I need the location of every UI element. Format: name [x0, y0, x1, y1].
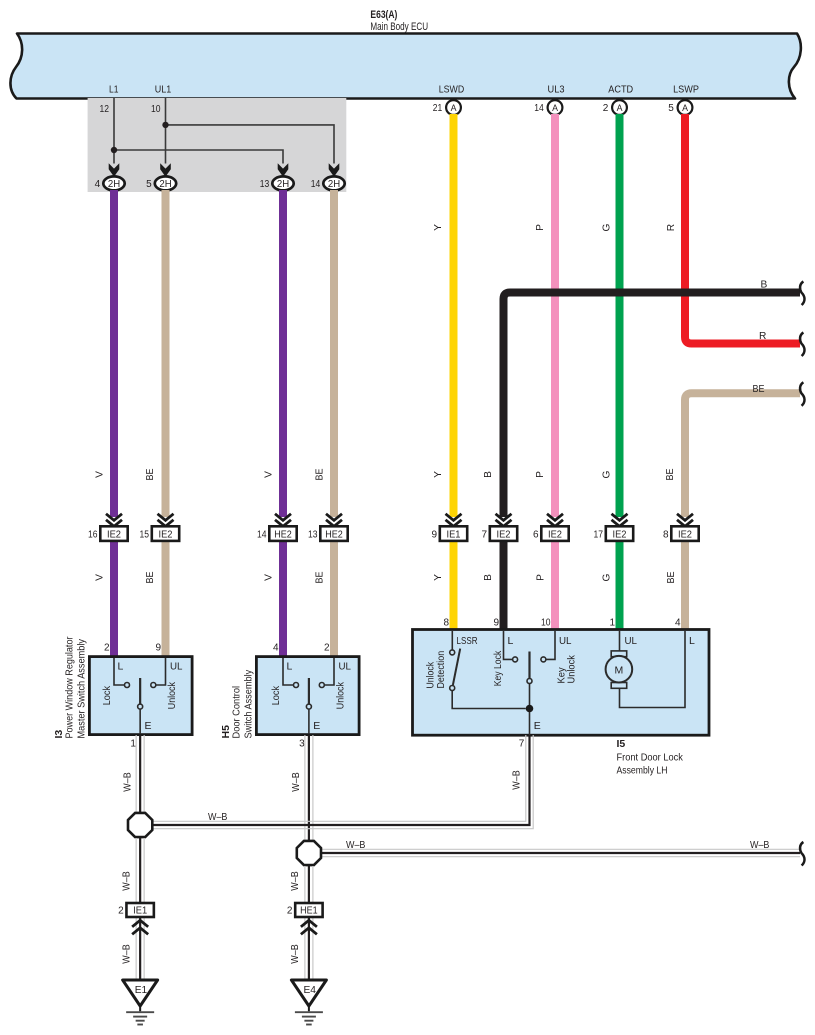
key switch pole: [528, 652, 530, 679]
connector IE2 pin 17: [606, 526, 633, 541]
svg-text:Key Lock: Key Lock: [493, 650, 504, 686]
svg-text:Unlock: Unlock: [335, 681, 346, 709]
svg-text:BE: BE: [753, 384, 765, 395]
connector IE1 pin 9: [440, 526, 467, 541]
svg-text:1: 1: [130, 738, 136, 749]
svg-text:12: 12: [100, 104, 110, 115]
ground E1: [123, 980, 158, 1025]
connector arrow into HE2 pin 13: [326, 514, 342, 527]
svg-text:Lock: Lock: [102, 685, 113, 705]
wire BE tan UL1 upper: [162, 190, 170, 517]
svg-text:W–B: W–B: [208, 812, 228, 823]
svg-text:4: 4: [675, 618, 681, 629]
svg-text:4: 4: [95, 179, 101, 190]
svg-text:IE1: IE1: [447, 530, 461, 541]
svg-text:L: L: [287, 661, 293, 673]
svg-text:2: 2: [118, 906, 124, 917]
svg-text:BE: BE: [315, 468, 326, 480]
junction UL1: [162, 122, 168, 128]
svg-text:IE2: IE2: [107, 530, 121, 541]
svg-text:W–B: W–B: [750, 840, 770, 851]
connector arrow into IE2 pin 15: [158, 514, 174, 527]
svg-text:17: 17: [594, 530, 604, 541]
W-B wire J2 to right break: [320, 849, 800, 856]
W-B wire IE1 to ground E1: [136, 917, 144, 980]
connector 2H pin 5: [155, 176, 176, 190]
pole contact (H5): [306, 704, 311, 709]
svg-text:14: 14: [534, 103, 544, 114]
svg-text:W–B: W–B: [122, 772, 133, 792]
wire Y yellow lower: [450, 541, 458, 630]
svg-text:E4: E4: [303, 985, 316, 996]
svg-text:IE2: IE2: [497, 530, 511, 541]
svg-text:V: V: [95, 471, 106, 478]
svg-text:IE2: IE2: [159, 530, 173, 541]
W-B wire H5 E to junction J2: [305, 735, 313, 841]
connector arrow into 2H pin 13: [278, 163, 289, 177]
key lock contact wiring: [504, 631, 513, 659]
wire BE tan 2 upper: [330, 190, 338, 517]
connector IE2 pin 15: [152, 526, 179, 541]
pole contact (I3): [138, 704, 143, 709]
box I3 Power Window Regulator Master Switch Assembly: [89, 657, 192, 735]
svg-text:2: 2: [104, 643, 110, 654]
svg-text:W–B: W–B: [290, 871, 301, 891]
svg-text:A: A: [552, 103, 558, 113]
svg-text:9: 9: [493, 618, 499, 629]
contact key unlock: [541, 657, 546, 662]
pole to E wire: [529, 684, 531, 736]
svg-text:H5: H5: [220, 725, 232, 739]
wire P pink upper: [551, 114, 559, 517]
svg-text:BE: BE: [145, 571, 156, 583]
wire BE tan UL1 lower: [162, 541, 170, 657]
svg-text:IE2: IE2: [678, 530, 692, 541]
svg-text:G: G: [602, 573, 613, 581]
connector 2H pin 14: [323, 176, 344, 190]
svg-text:A: A: [682, 103, 688, 113]
connector A pin 21: [446, 100, 461, 115]
svg-text:LSWP: LSWP: [673, 85, 699, 96]
svg-text:Detection: Detection: [436, 651, 447, 689]
connector arrow into IE2 pin 7: [496, 514, 512, 527]
svg-text:HE1: HE1: [300, 906, 318, 917]
svg-text:UL: UL: [625, 635, 638, 647]
contact L (H5): [294, 683, 299, 688]
svg-text:L: L: [118, 661, 124, 673]
svg-text:A: A: [451, 103, 457, 113]
svg-text:5: 5: [146, 179, 152, 190]
svg-text:Unlock: Unlock: [167, 681, 178, 709]
svg-text:2H: 2H: [108, 179, 120, 190]
svg-text:E: E: [144, 720, 151, 732]
svg-text:W–B: W–B: [346, 840, 366, 851]
svg-text:2H: 2H: [277, 179, 289, 190]
connector IE2 pin 6: [541, 526, 568, 541]
wire B black lower: [500, 541, 508, 630]
connector arrow into IE2 pin 8: [677, 514, 693, 527]
svg-text:B: B: [483, 574, 494, 581]
svg-text:IE1: IE1: [133, 906, 147, 917]
wire V purple L1 lower: [110, 541, 118, 657]
svg-text:V: V: [95, 574, 106, 581]
svg-text:Master Switch Assembly: Master Switch Assembly: [77, 638, 88, 738]
ground E4: [291, 980, 326, 1025]
connector IE2 pin 16: [100, 526, 127, 541]
svg-text:V: V: [264, 574, 275, 581]
svg-text:2H: 2H: [328, 179, 340, 190]
break mark wire R: [800, 333, 804, 357]
svg-text:B: B: [761, 280, 768, 291]
svg-text:E1: E1: [135, 985, 148, 996]
svg-text:1: 1: [609, 618, 615, 629]
svg-text:LSSR: LSSR: [457, 635, 478, 647]
svg-text:HE2: HE2: [325, 530, 343, 541]
connector A pin 14: [548, 100, 563, 115]
svg-text:6: 6: [533, 530, 539, 541]
wire R red: [685, 114, 800, 344]
svg-text:16: 16: [88, 530, 98, 541]
svg-text:8: 8: [443, 618, 449, 629]
connector 2H pin 4: [103, 176, 124, 190]
svg-text:B: B: [483, 471, 494, 478]
key unlock contact wiring: [546, 631, 555, 659]
svg-text:Unlock: Unlock: [566, 654, 577, 683]
unlock detection switch: [452, 631, 526, 709]
contact UL (I3): [151, 683, 156, 688]
box I5 Front Door Lock Assembly LH: [413, 630, 710, 736]
svg-text:W–B: W–B: [512, 770, 523, 790]
junction L1: [111, 147, 117, 153]
wire G green lower: [616, 541, 624, 630]
svg-text:BE: BE: [315, 571, 326, 583]
svg-text:Door Control: Door Control: [232, 686, 243, 739]
connector arrow into HE2 pin 14: [275, 514, 291, 527]
motor return wire: [620, 631, 686, 708]
connector arrow into IE2 pin 17: [612, 514, 628, 527]
svg-text:2H: 2H: [159, 179, 171, 190]
connector A pin 5: [678, 100, 693, 115]
svg-text:P: P: [535, 471, 546, 478]
svg-text:Lock: Lock: [271, 685, 282, 705]
wire Y yellow upper: [450, 114, 458, 517]
svg-text:IE2: IE2: [548, 530, 562, 541]
connector arrow into 2H pin 5: [160, 163, 171, 177]
svg-text:UL: UL: [559, 635, 572, 647]
connector IE1 pin 2: [126, 903, 153, 917]
connector HE2 pin 13: [320, 526, 347, 541]
svg-text:2: 2: [603, 103, 609, 114]
wire B black upper: [504, 293, 801, 518]
connector arrow into IE2 pin 6: [547, 514, 563, 527]
svg-text:LSWD: LSWD: [439, 85, 464, 96]
gray junction area: [88, 98, 347, 192]
svg-text:13: 13: [308, 530, 318, 541]
contact key lock: [513, 657, 518, 662]
svg-text:E63(A): E63(A): [370, 9, 397, 21]
wire V purple L1 upper: [110, 190, 118, 517]
wire V purple 2 lower: [279, 541, 287, 657]
svg-text:Unlock: Unlock: [426, 661, 437, 688]
svg-text:E: E: [534, 720, 541, 732]
svg-text:UL: UL: [170, 661, 183, 673]
H5 switch wiring: [283, 658, 334, 734]
svg-text:BE: BE: [666, 571, 677, 583]
connector arrow into 2H pin 4: [109, 163, 120, 177]
svg-text:9: 9: [431, 530, 437, 541]
wire V purple 2 upper: [279, 190, 287, 517]
svg-text:Front Door Lock: Front Door Lock: [617, 752, 684, 763]
svg-text:Power Window Regulator: Power Window Regulator: [65, 636, 76, 738]
junction octagon J2: [297, 841, 321, 865]
W-B wire I3 E to junction J1: [136, 735, 144, 813]
svg-text:P: P: [536, 574, 547, 581]
svg-text:P: P: [535, 224, 546, 231]
svg-text:G: G: [602, 470, 613, 478]
svg-text:3: 3: [299, 738, 305, 749]
svg-text:2: 2: [324, 643, 330, 654]
svg-text:I5: I5: [617, 738, 626, 750]
svg-text:Y: Y: [433, 471, 444, 478]
svg-text:10: 10: [151, 104, 161, 115]
connector HE1 pin 2: [295, 903, 322, 917]
svg-text:Main Body ECU: Main Body ECU: [370, 21, 428, 33]
connector arrow up at HE1: [301, 920, 317, 934]
svg-text:Assembly LH: Assembly LH: [617, 765, 668, 776]
svg-text:5: 5: [668, 103, 674, 114]
W-B wire HE1 to ground E4: [305, 917, 313, 980]
connector arrow up at IE1: [132, 920, 148, 934]
svg-text:15: 15: [140, 530, 150, 541]
svg-text:HE2: HE2: [274, 530, 292, 541]
svg-text:8: 8: [663, 530, 669, 541]
svg-text:L: L: [689, 635, 695, 647]
svg-text:BE: BE: [665, 468, 676, 480]
I3 switch wiring: [114, 658, 166, 734]
svg-text:IE2: IE2: [613, 530, 627, 541]
svg-text:21: 21: [433, 103, 443, 114]
svg-text:M: M: [615, 664, 624, 676]
svg-text:BE: BE: [145, 468, 156, 480]
wire BE tan 2 lower: [330, 541, 338, 657]
ECU E63(A) band: [10, 34, 800, 99]
svg-text:L: L: [508, 635, 514, 647]
svg-text:Y: Y: [433, 574, 444, 581]
box H5 Door Control Switch Assembly: [256, 657, 359, 735]
wire L1 to 2H pins: [114, 98, 283, 164]
svg-text:W–B: W–B: [121, 944, 132, 964]
connector IE2 pin 8: [671, 526, 698, 541]
W-B wire J2 to HE1: [305, 866, 313, 903]
break mark W-B right: [800, 842, 804, 866]
svg-text:14: 14: [311, 179, 321, 190]
pole contact (key switch): [527, 679, 532, 684]
svg-text:7: 7: [481, 530, 487, 541]
wire P pink lower: [551, 541, 559, 630]
junction dot E node: [526, 705, 534, 713]
contact top (unlock detection): [450, 650, 455, 655]
break mark wire B: [800, 282, 804, 306]
W-B wire J1 to IE1: [136, 838, 144, 903]
motor M: [606, 651, 633, 688]
svg-text:W–B: W–B: [291, 772, 302, 792]
svg-text:9: 9: [155, 643, 161, 654]
svg-text:Switch Assembly: Switch Assembly: [244, 669, 255, 738]
wire UL1 to 2H pins: [166, 98, 335, 164]
contact L (I3): [125, 683, 130, 688]
svg-text:R: R: [666, 224, 677, 231]
contact bottom (unlock detection): [450, 686, 455, 691]
svg-text:E: E: [313, 720, 320, 732]
svg-text:R: R: [759, 331, 766, 342]
wire G green upper: [616, 114, 624, 517]
svg-text:V: V: [264, 471, 275, 478]
W-B wire I5 pin7 to junction J1: [152, 735, 533, 829]
svg-text:Y: Y: [433, 224, 444, 231]
junction octagon J1: [128, 813, 152, 837]
connector HE2 pin 14: [269, 526, 296, 541]
svg-text:L1: L1: [109, 85, 119, 96]
svg-text:I3: I3: [53, 730, 65, 739]
svg-text:W–B: W–B: [121, 871, 132, 891]
motor feed wire: [619, 631, 621, 651]
wire BE tan right lower: [681, 541, 689, 630]
connector arrow into IE2 pin 16: [106, 514, 122, 527]
contact UL (H5): [319, 683, 324, 688]
svg-text:2: 2: [287, 906, 293, 917]
svg-text:W–B: W–B: [290, 944, 301, 964]
connector IE2 pin 7: [490, 526, 517, 541]
connector arrow into 2H pin 14: [329, 163, 340, 177]
svg-text:A: A: [617, 103, 623, 113]
svg-text:13: 13: [260, 179, 270, 190]
svg-text:10: 10: [541, 618, 551, 629]
svg-text:ACTD: ACTD: [608, 85, 633, 96]
wire BE tan right upper: [685, 393, 800, 517]
svg-text:UL3: UL3: [548, 85, 565, 96]
svg-text:UL: UL: [339, 661, 352, 673]
break mark wire BE: [800, 382, 804, 406]
svg-text:UL1: UL1: [155, 85, 172, 96]
connector arrow into IE1 pin 9: [446, 514, 462, 527]
svg-text:G: G: [602, 223, 613, 231]
connector A pin 2: [612, 100, 627, 115]
svg-text:14: 14: [257, 530, 267, 541]
svg-text:7: 7: [519, 738, 525, 749]
connector 2H pin 13: [272, 176, 293, 190]
svg-text:4: 4: [273, 643, 279, 654]
